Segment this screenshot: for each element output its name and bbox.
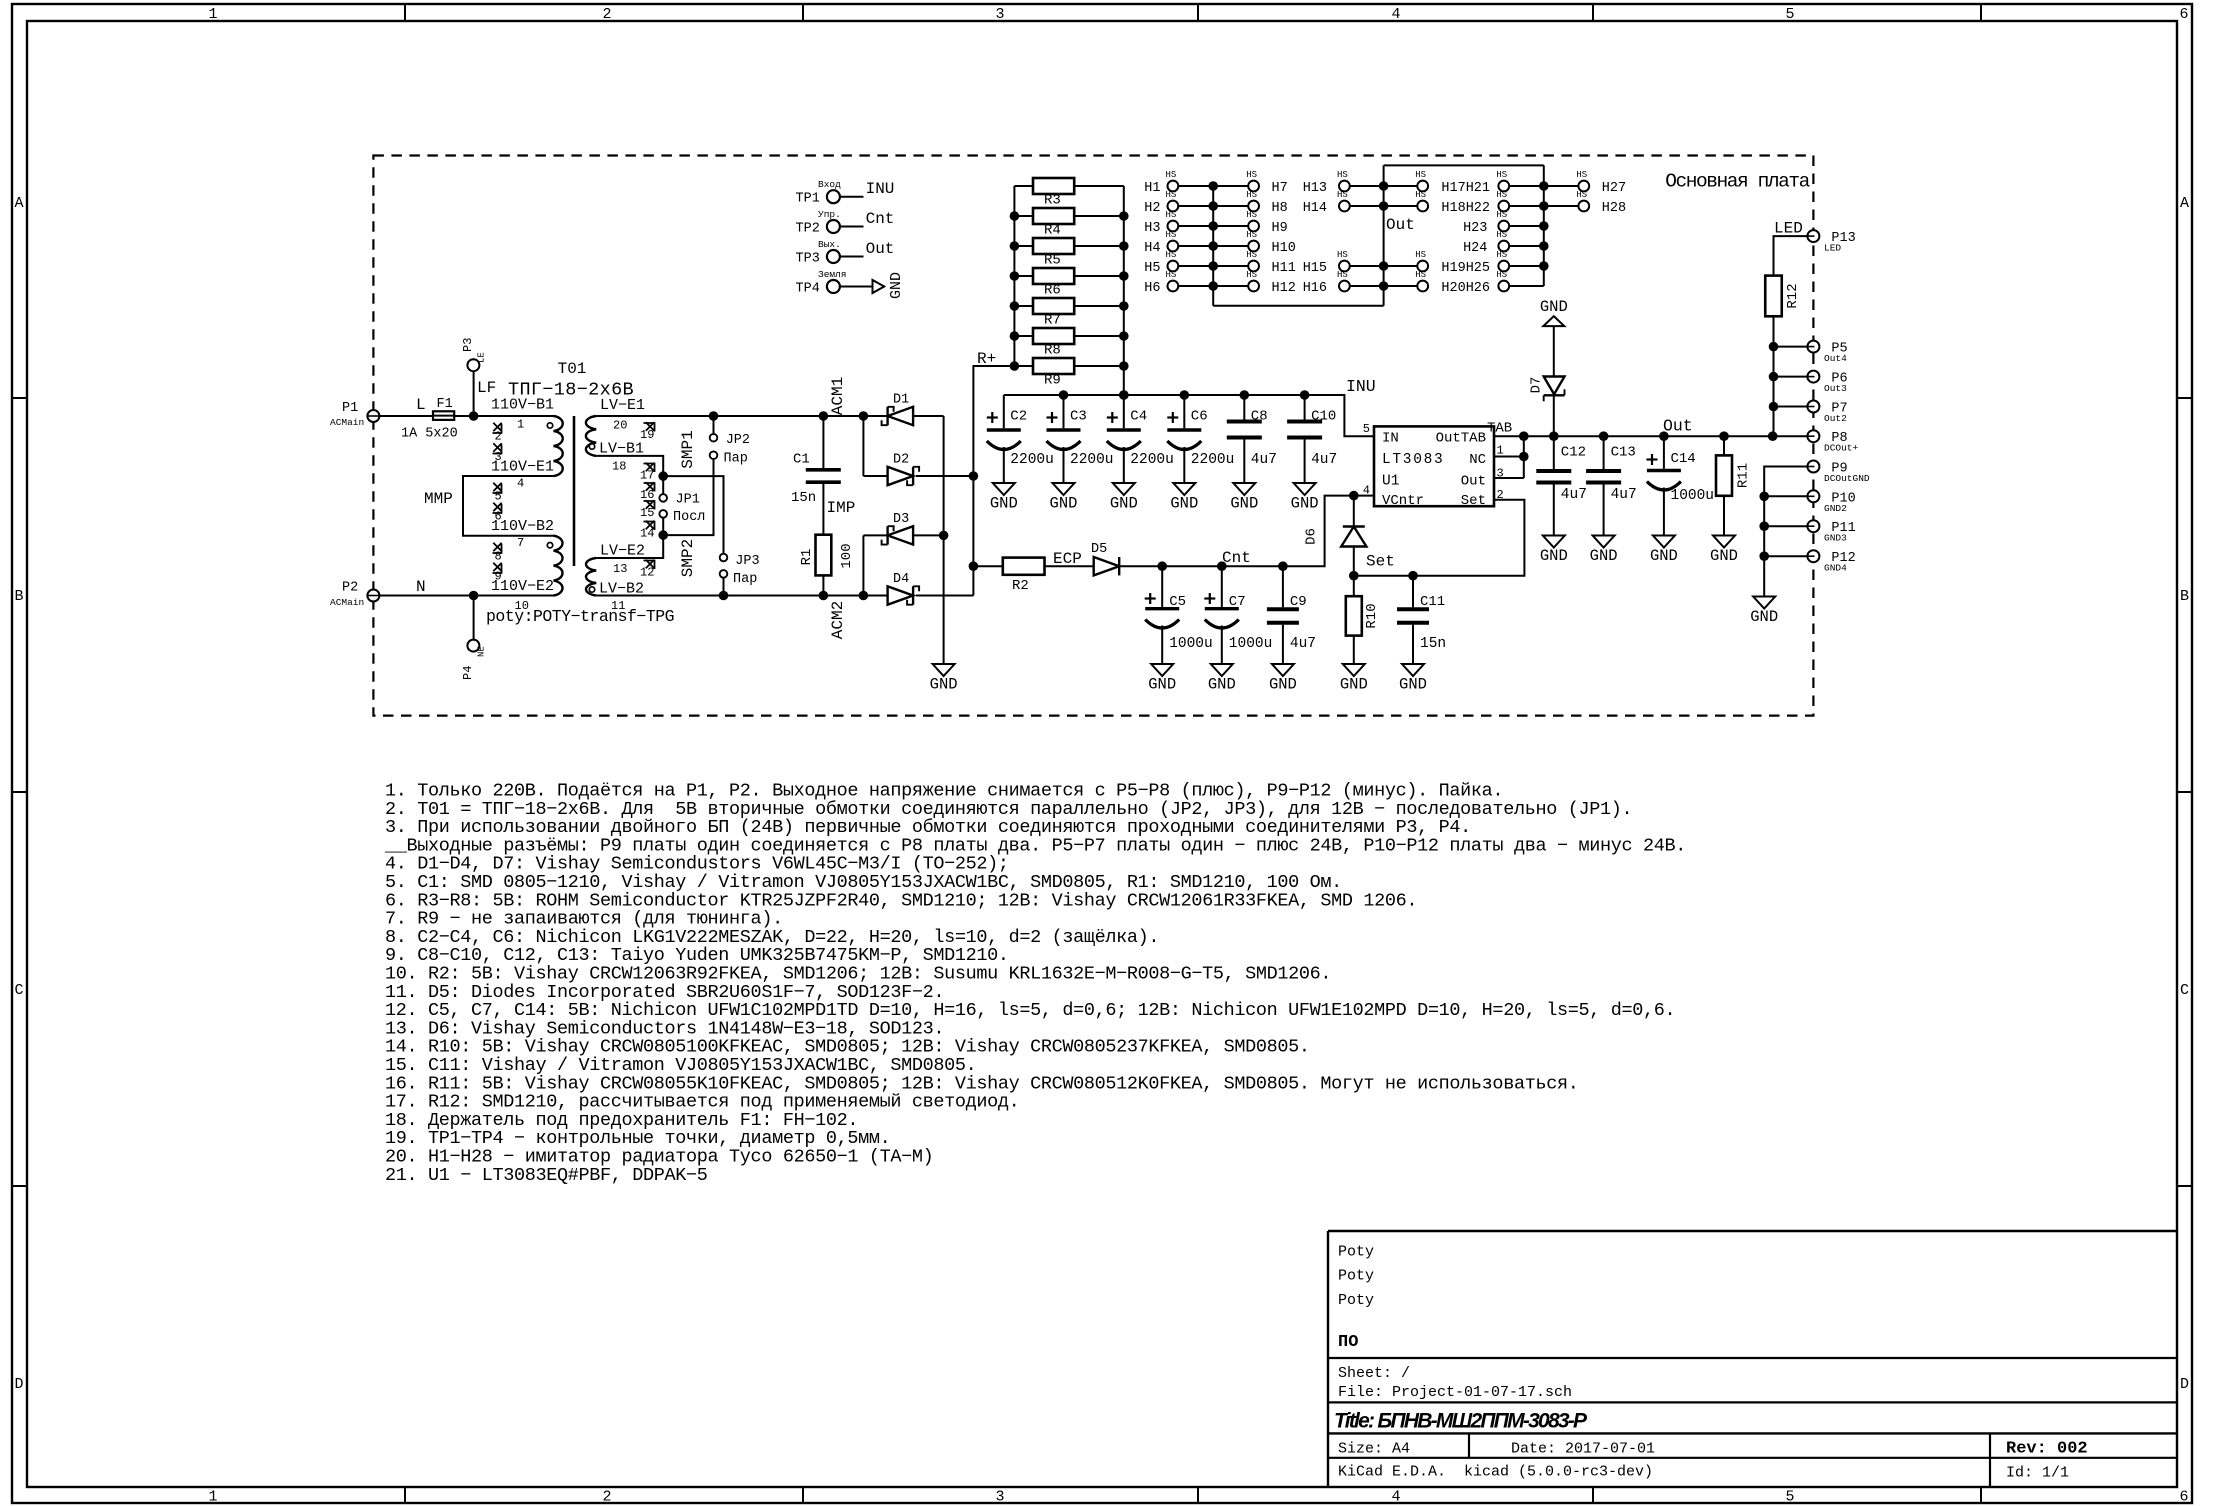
wire H23 to bus [1509, 225, 1544, 227]
diode D3 [882, 512, 914, 545]
wire H1 to bus [1178, 185, 1213, 187]
wire H10 to bus [1213, 245, 1248, 247]
svg-text:C8: C8 [1251, 409, 1268, 425]
svg-text:2: 2 [602, 6, 611, 23]
svg-text:Упр.: Упр. [818, 209, 841, 220]
capacitor C9 [1267, 566, 1316, 664]
svg-text:1000u: 1000u [1671, 488, 1715, 504]
svg-text:H12: H12 [1272, 281, 1296, 296]
svg-text:JP1: JP1 [676, 493, 700, 508]
svg-text:19: 19 [640, 428, 654, 442]
svg-text:GND: GND [1291, 495, 1319, 513]
svg-text:C9: C9 [1290, 594, 1307, 610]
svg-text:H14: H14 [1303, 201, 1327, 216]
svg-text:7: 7 [517, 536, 524, 550]
wire T01 pin18 down to pin17 node [596, 456, 663, 476]
svg-text:D7: D7 [1529, 377, 1545, 394]
svg-text:1: 1 [517, 418, 524, 432]
svg-text:ACM1: ACM1 [829, 377, 847, 415]
svg-text:ПО: ПО [1338, 1333, 1358, 1352]
wire fuse to transformer pin1 [454, 415, 553, 417]
op-amp / regulator U1 LT3083 [1374, 426, 1494, 508]
svg-text:HS: HS [1576, 170, 1587, 180]
wire D4 cathode to R+ column [916, 595, 973, 597]
svg-text:GND: GND [1230, 495, 1258, 513]
junction P11 [1759, 521, 1769, 531]
svg-text:D2: D2 [893, 453, 909, 468]
svg-text:13: 13 [613, 562, 627, 576]
heatsink pad [1415, 270, 1428, 291]
capacitor C5 [1145, 566, 1213, 664]
junction P7 [1769, 402, 1779, 412]
wire H8 to bus [1213, 205, 1248, 207]
wire H24 to bus [1509, 245, 1544, 247]
junction D2 on R+ column [969, 471, 979, 481]
svg-text:Out: Out [1461, 474, 1486, 490]
junction R5 right bus [1119, 241, 1129, 251]
test point TP2 [796, 209, 841, 236]
ground symbol under C8 [1230, 483, 1258, 513]
T01 no-connect tap pin 5 [493, 483, 502, 504]
svg-text:6: 6 [2179, 6, 2188, 23]
transformer T01 ТПГ-18-2х6В [508, 360, 634, 596]
ground symbol bridge [930, 664, 958, 694]
wire from TP3 [840, 256, 864, 258]
T01 no-connect tap pin 19 [640, 422, 655, 442]
wire P11 [1764, 525, 1807, 527]
svg-text:4: 4 [517, 477, 524, 491]
svg-text:L: L [416, 396, 426, 414]
wire H6 to bus [1178, 285, 1213, 287]
svg-text:110V−B1: 110V−B1 [491, 397, 554, 414]
svg-text:Cnt: Cnt [1222, 549, 1251, 567]
T01 no-connect tap pin 2 [493, 423, 502, 444]
ground symbol under C12 [1540, 536, 1568, 566]
ground symbol under C9 [1269, 664, 1297, 694]
heatsink pad [1415, 170, 1428, 191]
junction C11 top [1408, 571, 1418, 581]
svg-text:ACMain: ACMain [330, 597, 364, 608]
svg-text:9: 9 [495, 570, 502, 584]
wire from TP1 [840, 196, 864, 198]
svg-text:Id: 1/1: Id: 1/1 [2006, 1465, 2069, 1482]
connector P7 Out2 [1807, 401, 1847, 425]
svg-text:1000u: 1000u [1229, 636, 1273, 652]
svg-text:HS: HS [1496, 270, 1507, 280]
svg-text:2200u: 2200u [1130, 452, 1174, 468]
svg-text:D: D [14, 1376, 23, 1393]
svg-text:H13: H13 [1303, 181, 1327, 196]
svg-text:C: C [14, 982, 23, 999]
svg-text:HS: HS [1165, 250, 1176, 260]
svg-text:HS: HS [1337, 190, 1348, 200]
T01 no-connect tap pin 8 [493, 543, 502, 564]
heatsink pad [1496, 190, 1509, 211]
diode D7 (to GND) [1529, 326, 1565, 436]
svg-text:DCOut+: DCOut+ [1824, 443, 1859, 454]
svg-text:17: 17 [640, 469, 654, 483]
ground symbol above D7 (pointing up) [1540, 298, 1568, 326]
svg-text:LT3083: LT3083 [1382, 452, 1444, 468]
svg-text:6: 6 [2179, 1489, 2188, 1506]
junction at P4 branch [469, 591, 479, 601]
title block border and dividers [1328, 1231, 2177, 1487]
resistor bank left bus [1013, 186, 1015, 366]
svg-text:HS: HS [1246, 210, 1257, 220]
wire ACM1 from T01 pin20 to bridge [596, 415, 887, 417]
svg-text:R9: R9 [1044, 373, 1061, 389]
wire H18 to bus [1384, 205, 1418, 207]
connector P9 DCOutGND [1807, 461, 1870, 485]
connector P3 [461, 338, 487, 372]
svg-text:Out3: Out3 [1824, 383, 1847, 394]
svg-text:GND: GND [1650, 547, 1678, 565]
wire H12 to bus [1213, 285, 1248, 287]
svg-text:H7: H7 [1272, 181, 1288, 196]
junction C3 on INU bus [1059, 390, 1069, 400]
junction group1 row 6 [1208, 281, 1218, 291]
wire C1 to R1 (net IMP) [822, 484, 824, 535]
svg-text:HS: HS [1496, 170, 1507, 180]
svg-text:H15: H15 [1303, 261, 1327, 276]
svg-text:GND: GND [1590, 547, 1618, 565]
ground symbol under C13 [1590, 536, 1618, 566]
svg-text:Set: Set [1366, 553, 1395, 571]
frame row letters A-D left and right [14, 195, 2189, 1393]
heatsink pad H10 [1246, 230, 1296, 256]
svg-text:B: B [14, 588, 23, 605]
heatsink pad [1415, 250, 1428, 271]
svg-text:IMP: IMP [827, 499, 856, 517]
heatsink pad [1415, 190, 1428, 211]
wire U1 Out pin [1494, 477, 1524, 479]
wire P5 [1774, 346, 1808, 348]
svg-text:H17H21: H17H21 [1441, 181, 1490, 196]
svg-text:P2: P2 [342, 581, 358, 596]
heatsink pad H8 [1246, 190, 1288, 216]
svg-text:INU: INU [866, 180, 895, 198]
junction C9 on Cnt row [1278, 561, 1288, 571]
junction R9 right bus [1119, 361, 1129, 371]
svg-text:JP3: JP3 [735, 554, 759, 569]
wire P7 [1774, 406, 1808, 408]
wire H19 to bus [1384, 265, 1418, 267]
junction pin17 node [658, 471, 668, 481]
resistor R9 [1014, 358, 1123, 389]
svg-text:15n: 15n [791, 490, 816, 506]
wire from TP4 [840, 286, 873, 288]
svg-text:2: 2 [602, 1489, 611, 1506]
svg-text:C5: C5 [1169, 594, 1186, 610]
resistor R2 [1003, 558, 1045, 594]
heatsink pad H2 [1144, 190, 1178, 216]
junction bridge bottom branch [859, 591, 869, 601]
T01 no-connect tap pin 17 [640, 463, 655, 483]
svg-text:Основная плата: Основная плата [1665, 171, 1810, 193]
wire H15 to bus [1350, 265, 1384, 267]
capacitor C7 [1204, 566, 1272, 664]
svg-text:R12: R12 [1785, 283, 1801, 308]
svg-text:Пар: Пар [724, 452, 748, 467]
svg-text:ECP: ECP [1053, 550, 1082, 568]
svg-text:C11: C11 [1420, 594, 1445, 610]
svg-text:HS: HS [1496, 210, 1507, 220]
svg-text:P3: P3 [461, 338, 475, 352]
ground symbol under C10 [1291, 483, 1319, 513]
junction C13 on Out bus [1599, 431, 1609, 441]
svg-text:2: 2 [1497, 488, 1504, 502]
svg-text:poty:POTY−transf−TPG: poty:POTY−transf−TPG [486, 607, 674, 626]
jumper JP2 (parallel top) [710, 416, 750, 467]
resistor R12 [1765, 276, 1801, 317]
svg-text:LED: LED [1774, 220, 1803, 238]
svg-text:R5: R5 [1044, 253, 1061, 269]
svg-text:C6: C6 [1191, 409, 1208, 425]
svg-text:2200u: 2200u [1010, 452, 1054, 468]
heatsink pad [1496, 210, 1509, 231]
heatsink pad [1496, 270, 1509, 291]
wire H5 to bus [1178, 265, 1213, 267]
wire D4 left [863, 595, 887, 597]
junction R7 left bus [1010, 301, 1020, 311]
svg-text:R10: R10 [1364, 603, 1380, 628]
svg-text:3: 3 [495, 450, 502, 464]
junction R5 left bus [1010, 241, 1020, 251]
junction R4 right bus [1119, 211, 1129, 221]
svg-text:GND: GND [1208, 676, 1236, 694]
svg-text:4u7: 4u7 [1290, 636, 1316, 652]
svg-text:Посл: Посл [673, 510, 705, 525]
svg-text:GND: GND [1340, 676, 1368, 694]
svg-text:Out: Out [1663, 417, 1693, 436]
wire SMP1 pin17 node to JP3 column [663, 476, 723, 553]
svg-text:B: B [2180, 588, 2189, 605]
heatsink array bottom rail [1213, 305, 1383, 307]
ground symbol under C5 [1148, 664, 1176, 694]
svg-text:HS: HS [1576, 190, 1587, 200]
svg-text:Вход: Вход [818, 179, 841, 190]
svg-text:C7: C7 [1229, 594, 1246, 610]
wire H21 to bus [1509, 185, 1544, 187]
svg-text:GND: GND [990, 495, 1018, 513]
svg-text:H11: H11 [1272, 261, 1296, 276]
junction R2 on R+ column [969, 561, 979, 571]
svg-text:3: 3 [995, 6, 1004, 23]
svg-text:H3: H3 [1144, 221, 1160, 236]
svg-text:TAB: TAB [1487, 421, 1512, 437]
junction group2 H15 [1379, 261, 1389, 271]
heatsink pad [1496, 250, 1509, 271]
svg-text:5: 5 [1785, 6, 1794, 23]
svg-text:4: 4 [1391, 6, 1400, 23]
svg-text:NC: NC [1469, 452, 1486, 468]
junction R10 top [1349, 571, 1359, 581]
resistor R7 [1014, 298, 1123, 329]
svg-text:LV−E1: LV−E1 [600, 397, 645, 414]
svg-text:GND: GND [930, 676, 958, 694]
T01 no-connect tap pin 15 [640, 500, 655, 520]
svg-text:T01: T01 [558, 360, 587, 378]
svg-text:R7: R7 [1044, 313, 1061, 329]
notes text block [384, 781, 1686, 1186]
fuse F1 [401, 397, 458, 442]
svg-text:H5: H5 [1144, 261, 1160, 276]
svg-text:GND: GND [1110, 495, 1138, 513]
resistor bank right bus [1123, 186, 1125, 395]
svg-text:H1: H1 [1144, 181, 1160, 196]
wire P13 to R12 [1774, 236, 1808, 276]
connector P8 DCOut+ [1807, 430, 1858, 454]
junction group1 row 2 [1208, 201, 1218, 211]
svg-text:GND: GND [1170, 495, 1198, 513]
diode D2 [888, 453, 920, 486]
wire H17 to bus [1384, 185, 1418, 187]
wire H16 to bus [1350, 285, 1384, 287]
junction C10 on INU bus [1300, 390, 1310, 400]
svg-text:LE: LE [477, 352, 487, 363]
svg-text:R8: R8 [1044, 343, 1061, 359]
svg-text:HS: HS [1415, 250, 1426, 260]
ground symbol under C4 [1110, 483, 1138, 513]
ground symbol under C2 [990, 483, 1018, 513]
wire pin14 node to T01 pin13 [596, 535, 663, 558]
svg-text:HS: HS [1165, 210, 1176, 220]
junction group1 row 5 [1208, 261, 1218, 271]
svg-text:D3: D3 [893, 512, 909, 527]
T01 no-connect tap pin 12 [640, 560, 655, 580]
heatsink pad H14 [1303, 190, 1350, 216]
wire H28 to bus [1544, 205, 1579, 207]
connector P10 GND2 [1807, 490, 1855, 514]
capacitor C10 [1287, 395, 1337, 483]
heatsink array group 2 bus [1383, 165, 1385, 305]
svg-text:D1: D1 [893, 393, 909, 408]
svg-text:TP2: TP2 [796, 221, 820, 236]
svg-text:GND: GND [888, 272, 905, 299]
svg-text:4: 4 [1363, 484, 1370, 498]
heatsink pad H7 [1246, 170, 1288, 196]
diode D4 [888, 572, 920, 605]
wire bridge GND column [943, 416, 945, 664]
svg-text:H4: H4 [1144, 241, 1160, 256]
svg-text:KiCad E.D.A. kicad (5.0.0-rc3: KiCad E.D.A. kicad (5.0.0-rc3-dev) [1338, 1464, 1653, 1481]
wire P6 [1774, 376, 1808, 378]
svg-text:Out: Out [866, 240, 895, 258]
wire NC/Out tie column [1523, 436, 1525, 478]
svg-text:2200u: 2200u [1191, 452, 1235, 468]
svg-text:C10: C10 [1311, 409, 1336, 425]
ground symbol output connectors [1750, 597, 1778, 627]
junction group1 row 3 [1208, 221, 1218, 231]
svg-text:HS: HS [1415, 190, 1426, 200]
ground symbol under C11 [1399, 664, 1427, 694]
svg-text:H16: H16 [1303, 281, 1327, 296]
svg-text:GND4: GND4 [1824, 563, 1847, 574]
heatsink pad H5 [1144, 250, 1178, 276]
connector P5 Out4 [1807, 341, 1847, 365]
svg-text:H6: H6 [1144, 281, 1160, 296]
svg-text:100: 100 [839, 543, 855, 568]
svg-text:5: 5 [1785, 1489, 1794, 1506]
junction group3 row 4 [1539, 241, 1549, 251]
svg-text:H28: H28 [1602, 201, 1626, 216]
svg-text:C3: C3 [1070, 409, 1087, 425]
svg-text:Земля: Земля [818, 269, 847, 280]
junction group1 row 4 [1208, 241, 1218, 251]
wire D2 left [863, 475, 887, 477]
svg-text:Date: 2017-07-01: Date: 2017-07-01 [1511, 1441, 1655, 1458]
svg-text:D6: D6 [1304, 528, 1320, 545]
wire H2 to bus [1178, 205, 1213, 207]
svg-text:H2: H2 [1144, 201, 1160, 216]
svg-text:1000u: 1000u [1169, 636, 1213, 652]
svg-text:TP4: TP4 [796, 281, 820, 296]
connector P1 ACMain [330, 401, 379, 428]
svg-text:Пар: Пар [733, 572, 757, 587]
svg-text:SMP2: SMP2 [679, 539, 697, 577]
ground symbol at TP4 (arrow right) [873, 272, 906, 299]
heatsink array top rail [1384, 164, 1544, 166]
junction group2 H14 [1379, 201, 1389, 211]
svg-text:File: Project-01-07-17.sch: File: Project-01-07-17.sch [1338, 1384, 1572, 1401]
svg-text:R11: R11 [1736, 463, 1752, 488]
wire U1 NC pin [1494, 456, 1524, 458]
capacitor C11 [1397, 576, 1446, 664]
wire P10 [1764, 495, 1807, 497]
svg-text:18: 18 [612, 460, 626, 474]
diode D5 [1091, 542, 1119, 575]
capacitor C2 [987, 395, 1054, 483]
resistor R4 [1014, 208, 1123, 239]
jumper JP1 (series) [659, 476, 705, 535]
svg-text:JP2: JP2 [726, 433, 750, 448]
heatsink pad H13 [1303, 170, 1350, 196]
svg-text:H8: H8 [1272, 201, 1288, 216]
wire R+ column [973, 366, 1014, 596]
svg-text:4u7: 4u7 [1251, 452, 1277, 468]
wire SMP2 pin14 node up to JP2 [663, 459, 713, 535]
svg-text:GND: GND [1710, 547, 1738, 565]
svg-text:H10: H10 [1272, 241, 1296, 256]
junction R9 left bus [1010, 361, 1020, 371]
svg-text:H9: H9 [1272, 221, 1288, 236]
junction right bus to INU bus [1119, 390, 1129, 400]
svg-text:Out2: Out2 [1824, 413, 1847, 424]
junction pin14 node [658, 530, 668, 540]
svg-text:C4: C4 [1130, 409, 1147, 425]
wire D3 anode to GND column [913, 534, 944, 536]
resistor R10 [1346, 576, 1380, 664]
svg-text:A: A [14, 195, 23, 212]
wire ACM1 to C1 [822, 416, 824, 468]
junction R1 bottom [819, 591, 829, 601]
svg-text:HS: HS [1165, 270, 1176, 280]
wire bridge branch ACM1 down to D2 [862, 416, 864, 476]
ground symbol under C14 [1650, 536, 1678, 566]
wire D2 cathode to R+ column [916, 475, 973, 477]
resistor R1 100 [799, 535, 855, 576]
wire Cnt row [1119, 496, 1374, 567]
svg-text:GND: GND [1540, 298, 1568, 316]
junction P12 [1759, 551, 1769, 561]
junction C14 on Out bus [1659, 431, 1669, 441]
svg-text:20: 20 [613, 419, 627, 433]
junction group3 row 1 [1539, 181, 1549, 191]
svg-text:F1: F1 [437, 397, 453, 412]
svg-text:INU: INU [1346, 377, 1376, 396]
svg-text:HS: HS [1496, 250, 1507, 260]
svg-text:5: 5 [495, 490, 502, 504]
